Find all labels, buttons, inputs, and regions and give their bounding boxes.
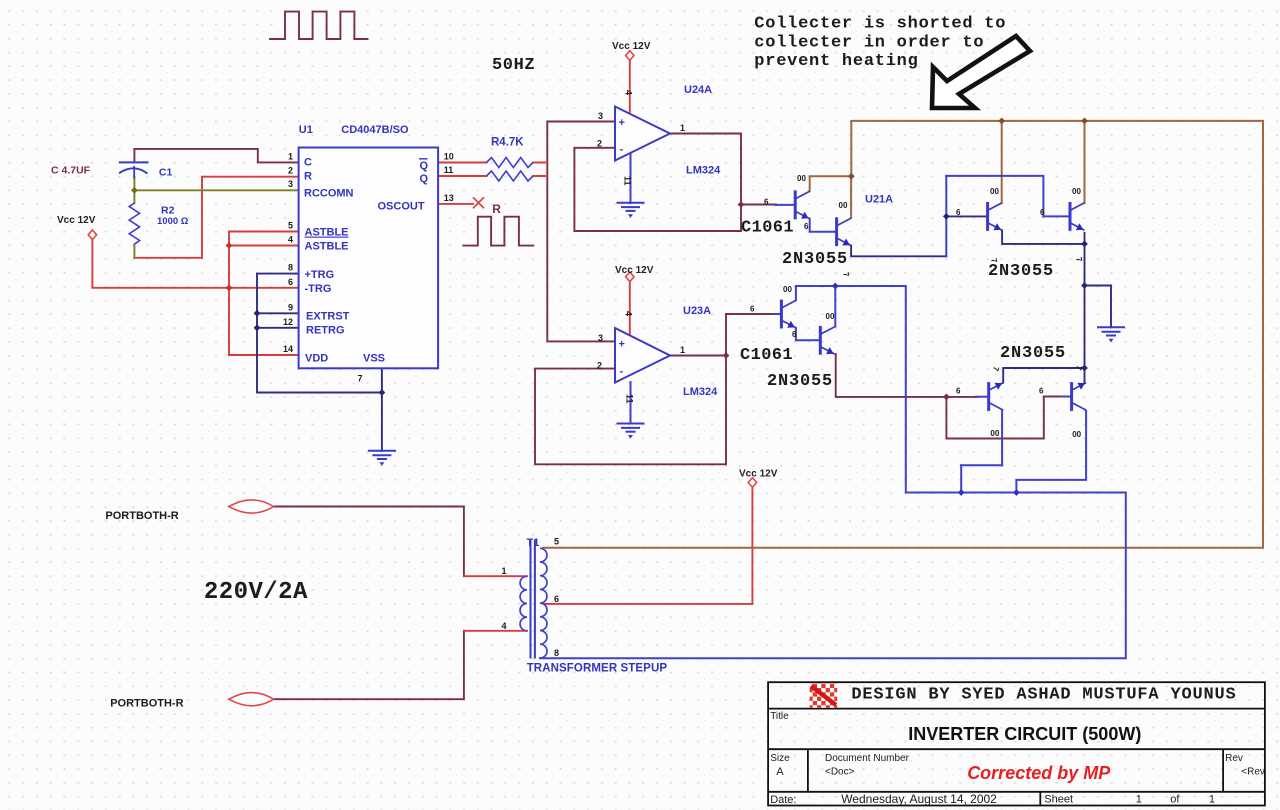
- svg-text:1: 1: [502, 566, 507, 576]
- svg-text:00: 00: [826, 312, 835, 321]
- svg-text:11: 11: [623, 176, 633, 186]
- svg-text:Size: Size: [770, 753, 790, 764]
- svg-text:PORTBOTH-R: PORTBOTH-R: [105, 510, 178, 522]
- svg-text:3: 3: [598, 333, 603, 343]
- svg-text:C1061: C1061: [740, 346, 793, 365]
- svg-text:11: 11: [444, 165, 454, 175]
- svg-text:U24A: U24A: [684, 84, 712, 96]
- svg-text:Q: Q: [420, 160, 429, 172]
- svg-text:13: 13: [444, 193, 454, 203]
- svg-text:2N3055: 2N3055: [782, 250, 848, 269]
- svg-text:3: 3: [598, 111, 603, 121]
- svg-text:LM324: LM324: [683, 386, 718, 398]
- svg-text:7: 7: [358, 373, 363, 383]
- svg-text:+: +: [619, 339, 625, 351]
- svg-text:-: -: [620, 366, 624, 378]
- svg-text:T1: T1: [527, 537, 540, 549]
- svg-text:Wednesday, August 14, 2002: Wednesday, August 14, 2002: [841, 792, 997, 806]
- svg-text:Vcc 12V: Vcc 12V: [57, 215, 96, 226]
- svg-text:Title: Title: [770, 711, 789, 722]
- svg-text:6: 6: [956, 386, 961, 395]
- svg-text:10: 10: [444, 152, 454, 162]
- svg-text:R: R: [492, 202, 501, 216]
- svg-text:R2: R2: [161, 205, 175, 217]
- svg-text:6: 6: [792, 330, 797, 339]
- svg-text:prevent heating: prevent heating: [754, 52, 918, 71]
- svg-text:RETRG: RETRG: [306, 325, 345, 337]
- svg-text:4: 4: [624, 90, 634, 95]
- svg-text:C1: C1: [159, 167, 173, 179]
- svg-text:50HZ: 50HZ: [492, 56, 535, 75]
- svg-text:DESIGN BY SYED ASHAD MUSTUFA Y: DESIGN BY SYED ASHAD MUSTUFA YOUNUS: [851, 686, 1236, 705]
- svg-text:1: 1: [680, 345, 685, 355]
- svg-text:Vcc 12V: Vcc 12V: [739, 469, 778, 480]
- svg-text:6: 6: [956, 208, 961, 217]
- svg-text:LM324: LM324: [686, 165, 721, 177]
- svg-text:00: 00: [990, 429, 999, 438]
- svg-text:C1061: C1061: [741, 219, 794, 238]
- svg-text:11: 11: [625, 394, 635, 404]
- svg-text:1: 1: [288, 152, 293, 162]
- svg-text:6: 6: [288, 277, 293, 287]
- svg-text:5: 5: [554, 537, 559, 547]
- svg-text:1: 1: [680, 123, 685, 133]
- svg-text:9: 9: [288, 302, 293, 312]
- svg-text:00: 00: [839, 201, 848, 210]
- svg-text:RCCOMN: RCCOMN: [304, 188, 354, 200]
- svg-text:C 4.7UF: C 4.7UF: [51, 165, 91, 177]
- svg-text:collecter in order to: collecter in order to: [754, 33, 984, 52]
- svg-text:Collecter is shorted to: Collecter is shorted to: [754, 15, 1006, 34]
- svg-text:Q: Q: [420, 173, 429, 185]
- svg-text:EXTRST: EXTRST: [306, 311, 350, 323]
- svg-text:C: C: [304, 157, 312, 169]
- svg-text:00: 00: [1072, 187, 1081, 196]
- svg-text:1: 1: [1136, 794, 1142, 806]
- svg-text:Rev: Rev: [1225, 753, 1243, 764]
- svg-text:<Rev: <Rev: [1241, 767, 1265, 778]
- svg-text:TRANSFORMER STEPUP: TRANSFORMER STEPUP: [527, 662, 668, 674]
- svg-text:2N3055: 2N3055: [1000, 344, 1066, 363]
- svg-text:Vcc 12V: Vcc 12V: [615, 265, 654, 276]
- svg-text:220V/2A: 220V/2A: [204, 579, 308, 606]
- svg-text:1000 Ω: 1000 Ω: [157, 216, 189, 227]
- svg-text:00: 00: [797, 174, 806, 183]
- svg-text:Corrected by MP: Corrected by MP: [967, 763, 1111, 783]
- svg-text:8: 8: [554, 648, 559, 658]
- svg-text:Document Number: Document Number: [825, 753, 910, 764]
- svg-text:6: 6: [554, 594, 559, 604]
- svg-text:6: 6: [804, 222, 809, 231]
- svg-text:<Doc>: <Doc>: [825, 767, 855, 778]
- svg-text:-TRG: -TRG: [305, 283, 332, 295]
- svg-text:2: 2: [597, 139, 602, 149]
- svg-text:Sheet: Sheet: [1044, 794, 1073, 806]
- svg-text:2N3055: 2N3055: [988, 262, 1054, 281]
- svg-text:8: 8: [288, 263, 293, 273]
- svg-text:+TRG: +TRG: [305, 269, 335, 281]
- svg-text:5: 5: [288, 221, 293, 231]
- svg-text:12: 12: [283, 317, 293, 327]
- svg-text:2: 2: [597, 361, 602, 371]
- svg-text:PORTBOTH-R: PORTBOTH-R: [110, 697, 183, 709]
- svg-text:OSCOUT: OSCOUT: [378, 201, 425, 213]
- svg-text:VSS: VSS: [363, 352, 385, 364]
- svg-text:Date:: Date:: [770, 794, 796, 806]
- svg-text:6: 6: [1040, 208, 1045, 217]
- svg-text:6: 6: [764, 197, 769, 206]
- svg-text:4: 4: [288, 235, 293, 245]
- svg-text:Vcc 12V: Vcc 12V: [612, 41, 651, 52]
- svg-text:CD4047B/SO: CD4047B/SO: [341, 124, 409, 136]
- svg-text:-: -: [620, 144, 624, 156]
- svg-text:ASTBLE: ASTBLE: [305, 241, 349, 253]
- svg-text:6: 6: [1039, 386, 1044, 395]
- svg-text:R: R: [304, 170, 312, 182]
- svg-text:INVERTER CIRCUIT (500W): INVERTER CIRCUIT (500W): [908, 724, 1141, 744]
- svg-text:U23A: U23A: [683, 305, 711, 317]
- svg-text:1: 1: [1209, 794, 1215, 806]
- svg-text:4: 4: [502, 621, 507, 631]
- svg-text:U1: U1: [299, 124, 313, 136]
- svg-text:VDD: VDD: [305, 352, 328, 364]
- svg-text:R4.7K: R4.7K: [491, 137, 524, 149]
- svg-text:+: +: [619, 117, 625, 129]
- svg-text:U21A: U21A: [865, 194, 893, 206]
- svg-text:3: 3: [288, 179, 293, 189]
- svg-text:2: 2: [288, 166, 293, 176]
- svg-text:ASTBLE: ASTBLE: [305, 227, 349, 239]
- svg-text:00: 00: [783, 285, 792, 294]
- svg-text:00: 00: [1072, 430, 1081, 439]
- svg-text:2N3055: 2N3055: [767, 372, 833, 391]
- svg-text:A: A: [776, 766, 784, 778]
- svg-text:14: 14: [283, 344, 293, 354]
- svg-text:4: 4: [624, 311, 634, 316]
- svg-text:6: 6: [750, 305, 755, 314]
- svg-text:of: of: [1170, 794, 1180, 806]
- svg-text:00: 00: [990, 187, 999, 196]
